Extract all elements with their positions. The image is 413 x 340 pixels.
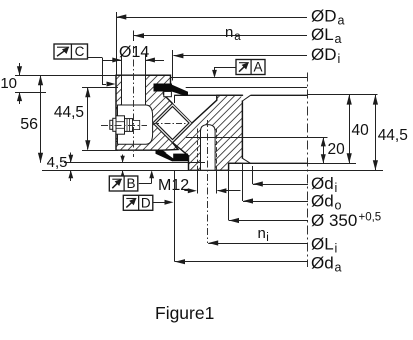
svg-text:56: 56 (20, 116, 38, 133)
svg-text:20: 20 (328, 141, 346, 158)
svg-text:Ød: Ød (311, 253, 334, 272)
datum B (109, 176, 138, 191)
svg-text:4,5: 4,5 (47, 154, 68, 171)
datum A (236, 60, 265, 75)
4,5 arrows at ring (122, 155, 124, 163)
svg-text:i: i (338, 52, 341, 66)
seal surface line lower (186, 87, 307, 89)
svg-text:ØL: ØL (311, 235, 334, 254)
outer ring top face and seal lip (174, 94, 242, 96)
extension line 10 lower (15, 92, 46, 94)
dimension 44,5 left (87, 87, 89, 149)
dimension 4,5 (64, 162, 205, 164)
svg-text:C: C (75, 44, 85, 59)
datum B leader (139, 183, 152, 185)
svg-text:B: B (126, 176, 135, 191)
svg-text:ØD: ØD (311, 45, 337, 64)
svg-text:Ø14: Ø14 (119, 44, 149, 61)
outer ring (right, hatched section) (173, 95, 243, 170)
datum C (54, 44, 88, 59)
n_a dimension (134, 35, 307, 37)
Ø350 leader and label (229, 220, 308, 222)
svg-text:n: n (258, 225, 266, 242)
svg-text:a: a (335, 32, 342, 46)
roller raceway (offset square) (153, 104, 192, 143)
svg-text:44,5: 44,5 (378, 127, 408, 144)
svg-text:a: a (338, 14, 345, 28)
seal surface line upper (171, 77, 308, 79)
inner ring (left, hatched section) (116, 75, 178, 150)
svg-text:10: 10 (0, 75, 17, 92)
dimension 44,5 right (375, 95, 377, 171)
bearing axis centerline (dash-dot vertical) (307, 73, 309, 268)
datum A leader (215, 67, 237, 69)
chamfer corner whiteout (241, 96, 243, 101)
svg-text:40: 40 (352, 122, 370, 139)
bottom seal (black lip + block) (156, 150, 178, 161)
bore step line (186, 137, 328, 139)
svg-text:Figure1: Figure1 (155, 303, 214, 323)
svg-text:44,5: 44,5 (54, 104, 84, 121)
ØDi leader (173, 55, 307, 57)
svg-text:a: a (234, 31, 241, 43)
outer ring right (unsectioned) part with chamfers (251, 94, 308, 96)
inner ring top face line over hole (116, 74, 171, 76)
svg-text:ØL: ØL (311, 25, 334, 44)
svg-text:ØD: ØD (311, 7, 337, 26)
extension line recess floor (307, 163, 356, 165)
ØDa leader (116, 17, 307, 19)
nipple centerline (101, 125, 147, 127)
Ødi leader and label (253, 184, 308, 186)
svg-text:i: i (266, 232, 269, 244)
top seal tab (164, 92, 172, 97)
dimension 40 (349, 95, 351, 164)
ØDa extension vertical (116, 12, 118, 75)
datum D (123, 195, 153, 210)
M12 tapped hole (white slot with dome) (201, 125, 216, 171)
top seal (black block + lip) (154, 84, 173, 92)
Ø14 extension verticals (121, 55, 123, 76)
datum C leader (88, 57, 103, 59)
datum D leader (153, 202, 165, 204)
svg-text:M12: M12 (158, 177, 189, 194)
M12 hole centerline (207, 120, 209, 243)
svg-text:A: A (254, 60, 263, 75)
Ø14 hole centerline (133, 46, 135, 157)
dimension 56 (40, 75, 42, 163)
svg-text:Ø 350: Ø 350 (311, 211, 357, 230)
crossed roller (diamond) (156, 107, 189, 140)
extension line top face (15, 75, 116, 77)
bolt hole Ø14 (white slot) (121, 74, 146, 105)
Øda leader and label (175, 261, 308, 263)
roller centre mark (153, 123, 186, 125)
Ødo leader and label (243, 201, 308, 203)
svg-text:D: D (141, 196, 151, 211)
dimension 10 (19, 63, 21, 75)
svg-text:+0,5: +0,5 (359, 212, 382, 224)
svg-text:i: i (335, 181, 338, 195)
svg-text:Ød: Ød (311, 174, 334, 193)
svg-text:n: n (225, 24, 233, 41)
dimension Ø14 (103, 60, 121, 62)
M12 dimension extension lines (197, 170, 199, 193)
svg-text:i: i (335, 242, 338, 256)
M12 thread lines (dashed) (197, 129, 199, 171)
dimension 20 (323, 137, 325, 163)
ØLi leader, n_i and label (208, 243, 308, 245)
grease nipple pocket (118, 105, 153, 144)
svg-text:Ød: Ød (311, 192, 334, 211)
svg-text:a: a (335, 260, 342, 274)
extension line outer ring top (307, 94, 378, 96)
bottom seal notch (165, 153, 173, 159)
grease nipple (110, 116, 140, 134)
